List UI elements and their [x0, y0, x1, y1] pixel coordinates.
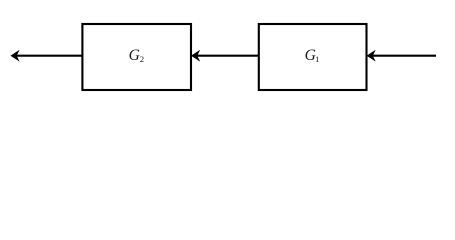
wire: G2 output line: [17, 55, 83, 57]
svg-text:1: 1: [315, 54, 319, 64]
block G2: [82, 24, 191, 90]
wire: input line to G1: [373, 55, 437, 57]
svg-text:G: G: [129, 47, 140, 64]
arrowhead into G1 right edge (points left): [367, 51, 374, 61]
arrowhead into G2 right edge (points left): [192, 51, 199, 61]
svg-text:2: 2: [140, 54, 144, 64]
block G1: [259, 24, 367, 90]
wire: G1 to G2 line: [197, 55, 259, 57]
arrowhead on G2 output (points left): [11, 51, 18, 61]
